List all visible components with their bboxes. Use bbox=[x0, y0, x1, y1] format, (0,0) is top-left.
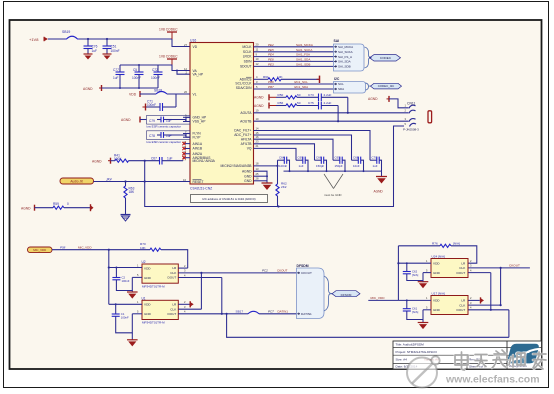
svg-text:1V8 CODEC: 1V8 CODEC bbox=[159, 55, 178, 59]
svg-text:100nF: 100nF bbox=[279, 164, 287, 168]
microphone U24 bbox=[398, 254, 500, 277]
resistor R63 bbox=[124, 182, 135, 215]
svg-text:12: 12 bbox=[184, 67, 187, 71]
svg-text:DOUT: DOUT bbox=[168, 312, 177, 316]
svg-text:Audio JK: Audio JK bbox=[70, 179, 84, 183]
svg-text:AGND: AGND bbox=[254, 96, 264, 100]
svg-text:100nF: 100nF bbox=[151, 76, 160, 80]
power flag 1V8_CODEC bbox=[159, 28, 178, 40]
wire SCLK / SAI1_SCKA bbox=[254, 48, 334, 52]
svg-text:SDA/CDIN: SDA/CDIN bbox=[236, 86, 252, 90]
note box I2C address bbox=[191, 195, 268, 203]
wire MIC_VDD bbox=[52, 245, 150, 304]
svg-text:SAI1_MCKA: SAI1_MCKA bbox=[296, 43, 313, 47]
svg-text:1uF: 1uF bbox=[299, 164, 304, 168]
svg-text:VQ: VQ bbox=[247, 147, 252, 151]
svg-text:P58: P58 bbox=[60, 245, 66, 249]
svg-text:PB6: PB6 bbox=[268, 80, 274, 84]
wire CLK vertical right mics bbox=[500, 267, 502, 306]
svg-text:C68: C68 bbox=[353, 155, 359, 159]
wire SCL / I2C1_SCL bbox=[254, 80, 334, 84]
svg-text:GND: GND bbox=[144, 276, 152, 280]
wire AOUTA to jack bbox=[254, 109, 405, 113]
svg-text:100nF: 100nF bbox=[147, 103, 156, 107]
wire DOUT to SB17 bbox=[226, 313, 509, 338]
svg-text:Size: A4: Size: A4 bbox=[396, 358, 408, 362]
capacitor C77 bbox=[113, 65, 125, 88]
svg-text:R61: R61 bbox=[263, 75, 269, 79]
watermark chinese characters bbox=[455, 350, 546, 370]
svg-text:PC2: PC2 bbox=[262, 269, 268, 273]
port AGND flag at C71 bbox=[143, 104, 146, 111]
capacitor C76 bbox=[84, 39, 98, 54]
port AGND at R56 bbox=[254, 103, 276, 109]
svg-text:CLK: CLK bbox=[170, 271, 177, 275]
svg-text:C67: C67 bbox=[151, 156, 157, 160]
capacitor C75 bbox=[308, 101, 339, 122]
capacitor C68 bbox=[352, 155, 364, 171]
microphone U2 bbox=[109, 260, 222, 288]
svg-text:Title: Audio&DFSDM: Title: Audio&DFSDM bbox=[396, 343, 425, 347]
ground at U2 bbox=[127, 291, 138, 299]
svg-text:SAI1_FSA: SAI1_FSA bbox=[296, 53, 310, 57]
sheet entry CODEC_I2C bbox=[371, 83, 402, 89]
ground at U17 bbox=[418, 320, 429, 330]
wire SDA / I2C1_SDA bbox=[254, 85, 334, 89]
microphone U17 bbox=[398, 291, 509, 314]
svg-text:1uF: 1uF bbox=[113, 76, 119, 80]
capacitor C2 bbox=[112, 268, 132, 291]
svg-text:19: 19 bbox=[256, 109, 259, 113]
svg-text:AGND: AGND bbox=[21, 207, 31, 211]
power flag 1V8_CODEC bbox=[159, 55, 178, 66]
capacitor C64 bbox=[278, 155, 290, 171]
svg-text:20: 20 bbox=[256, 43, 259, 47]
svg-text:AFILTB: AFILTB bbox=[241, 142, 253, 146]
wire LRCK / SAI1_FSA bbox=[254, 52, 334, 56]
no connect X marks bbox=[182, 142, 185, 160]
svg-text:AGND: AGND bbox=[121, 118, 131, 122]
svg-text:C76: C76 bbox=[92, 45, 98, 49]
wire ADC_FILT+ elbow bbox=[254, 131, 352, 160]
svg-text:AIN1A: AIN1A bbox=[193, 142, 203, 146]
wire CLK vertical to U1 bbox=[200, 272, 202, 309]
power flag GND at U17 LR bbox=[481, 297, 485, 303]
capacitor C67 bbox=[144, 156, 183, 164]
title block text bbox=[396, 343, 486, 369]
svg-text:VA_HP: VA_HP bbox=[193, 73, 204, 77]
svg-text:MP34DT01TR-M: MP34DT01TR-M bbox=[142, 284, 165, 288]
capacitor C65 bbox=[333, 155, 345, 171]
wire SDOUT / SAI1_SDB bbox=[254, 62, 334, 66]
capacitor C5 bbox=[132, 65, 144, 88]
svg-text:[N/A]: [N/A] bbox=[412, 310, 418, 314]
op-amp U16 codec body bbox=[190, 39, 254, 191]
svg-text:GND: GND bbox=[433, 271, 441, 275]
svg-text:SCL: SCL bbox=[338, 82, 344, 86]
svg-text:SB19: SB19 bbox=[62, 30, 70, 34]
svg-text:must be GND: must be GND bbox=[324, 193, 342, 197]
wire MICIN2 bbox=[254, 160, 279, 184]
ground at U1 bbox=[127, 333, 138, 347]
wire jack detect to JK net bbox=[145, 126, 404, 208]
U16 left pin names bbox=[193, 45, 216, 184]
svg-text:10K: 10K bbox=[140, 246, 146, 250]
svg-text:DFSDM: DFSDM bbox=[297, 264, 309, 268]
wire MCLK / SAI1_MCKA bbox=[254, 43, 334, 47]
svg-text:U17 [N/A]: U17 [N/A] bbox=[432, 291, 446, 295]
svg-text:26: 26 bbox=[184, 90, 187, 94]
port AGND at CN11 bbox=[368, 96, 404, 108]
svg-text:VD: VD bbox=[193, 45, 198, 49]
power flag VDD bbox=[129, 91, 140, 97]
connector CN11 audio jack bbox=[403, 102, 432, 132]
svg-text:2K2: 2K2 bbox=[281, 185, 287, 189]
harness DFSDM bbox=[297, 264, 332, 319]
wire SDIN / SAI1_SDA bbox=[254, 57, 334, 61]
svg-text:U16: U16 bbox=[190, 39, 196, 43]
svg-text:1uF: 1uF bbox=[166, 119, 172, 123]
harness SAI bbox=[334, 39, 372, 71]
capacitor C51 bbox=[103, 39, 120, 54]
svg-text:I2C1_SCL: I2C1_SCL bbox=[294, 80, 308, 84]
svg-text:50: 50 bbox=[297, 101, 301, 105]
svg-text:CKOUT: CKOUT bbox=[509, 264, 520, 268]
power flag GND at U1 LR bbox=[190, 301, 194, 307]
svg-text:25: 25 bbox=[256, 172, 259, 176]
svg-text:low ESR ceramic capacitor: low ESR ceramic capacitor bbox=[147, 125, 182, 129]
svg-text:SAI_SDA: SAI_SDA bbox=[338, 60, 351, 64]
resistor R61 pull-up bbox=[254, 75, 320, 81]
svg-text:VDD: VDD bbox=[433, 299, 440, 303]
svg-text:low ESR ceramic capacitor: low ESR ceramic capacitor bbox=[147, 140, 182, 144]
svg-text:DOUT: DOUT bbox=[457, 271, 466, 275]
wire AOUTB to jack bbox=[254, 117, 405, 121]
microphone U1 bbox=[109, 297, 227, 325]
svg-text:+1V8: +1V8 bbox=[29, 37, 39, 42]
wire MIC_VDD right bbox=[368, 246, 399, 301]
svg-text:PE2: PE2 bbox=[268, 43, 274, 47]
svg-text:SAI1_SCKA: SAI1_SCKA bbox=[296, 48, 312, 52]
svg-text:[N/A]: [N/A] bbox=[412, 273, 418, 277]
svg-text:SAI_MCKA: SAI_MCKA bbox=[338, 45, 353, 49]
svg-text:VDD: VDD bbox=[433, 261, 440, 265]
svg-text:150pF: 150pF bbox=[316, 164, 324, 168]
svg-text:1uF: 1uF bbox=[166, 134, 172, 138]
svg-text:SCLK: SCLK bbox=[243, 50, 252, 54]
svg-text:FLYP: FLYP bbox=[193, 135, 202, 139]
capacitor C73 bbox=[308, 93, 349, 114]
svg-text:AGND: AGND bbox=[242, 169, 252, 173]
svg-text:C5: C5 bbox=[133, 68, 137, 72]
svg-text:MCLK: MCLK bbox=[242, 45, 252, 49]
wire AGND GND pins elbow bbox=[254, 167, 269, 183]
wire CKOUT right bbox=[501, 264, 530, 268]
wire AGND rail under caps bbox=[284, 170, 382, 176]
svg-text:R50: R50 bbox=[278, 93, 284, 97]
svg-text:27: 27 bbox=[184, 43, 187, 47]
solder bridge SB18 bbox=[140, 89, 190, 95]
port AGND at R41 bbox=[92, 158, 111, 164]
svg-text:C66: C66 bbox=[316, 155, 322, 159]
svg-text:100K: 100K bbox=[114, 157, 122, 161]
svg-text:16: 16 bbox=[256, 135, 259, 139]
port AGND at C79 bbox=[121, 117, 147, 123]
sheet entry CODEC bbox=[370, 55, 401, 61]
watermark url text bbox=[445, 374, 540, 386]
svg-text:SB17: SB17 bbox=[236, 310, 244, 314]
svg-text:DATIN1: DATIN1 bbox=[278, 310, 289, 314]
svg-text:15: 15 bbox=[256, 131, 259, 135]
svg-text:SAI: SAI bbox=[334, 39, 340, 43]
svg-text:SAI1_SDA: SAI1_SDA bbox=[296, 58, 310, 62]
svg-text:C77: C77 bbox=[113, 68, 119, 72]
svg-text:SDOUT: SDOUT bbox=[240, 64, 252, 68]
svg-text:I2C1_SDA: I2C1_SDA bbox=[294, 85, 308, 89]
power flag at R61 bbox=[317, 76, 320, 83]
svg-text:VDD: VDD bbox=[129, 93, 137, 97]
svg-text:10nF: 10nF bbox=[353, 164, 360, 168]
capacitor C78 in box bbox=[147, 131, 191, 144]
svg-text:14: 14 bbox=[256, 126, 259, 130]
svg-text:C73: C73 bbox=[308, 93, 314, 97]
capacitor C79 in box bbox=[147, 116, 191, 129]
svg-text:AGND: AGND bbox=[374, 190, 384, 194]
svg-text:100nF: 100nF bbox=[132, 76, 141, 80]
svg-text:CS42L51-CNZ: CS42L51-CNZ bbox=[190, 187, 212, 191]
svg-text:100nF: 100nF bbox=[122, 279, 130, 283]
svg-text:AFILTA: AFILTA bbox=[241, 137, 252, 141]
resistor R70 bbox=[140, 242, 188, 268]
svg-text:18K: 18K bbox=[129, 190, 136, 194]
U16 left pin stubs and numbers bbox=[183, 43, 188, 182]
svg-text:R59: R59 bbox=[53, 202, 59, 206]
svg-text:PE3: PE3 bbox=[268, 63, 274, 67]
svg-text:1uF: 1uF bbox=[92, 49, 98, 53]
svg-text:1uF: 1uF bbox=[373, 164, 378, 168]
svg-text:2.2uF: 2.2uF bbox=[324, 101, 332, 105]
svg-text:50: 50 bbox=[297, 93, 301, 97]
svg-text:C78: C78 bbox=[149, 134, 155, 138]
harness I2C bbox=[334, 77, 371, 93]
watermark magnifier icon bbox=[407, 356, 440, 387]
svg-text:AGND: AGND bbox=[254, 104, 264, 108]
power flag at R59 bbox=[91, 204, 94, 211]
logo ST bbox=[508, 344, 540, 368]
port MIC_VDD bbox=[28, 247, 53, 253]
svg-text:VL: VL bbox=[193, 92, 197, 96]
svg-text:150pF: 150pF bbox=[335, 164, 343, 168]
capacitor C71 bbox=[146, 94, 176, 111]
svg-text:DFSDM: DFSDM bbox=[341, 293, 352, 297]
capacitor C70 bbox=[370, 155, 382, 171]
svg-text:R56: R56 bbox=[278, 101, 284, 105]
resistor R62 bbox=[276, 181, 287, 206]
svg-text:DAC_FILT+: DAC_FILT+ bbox=[234, 129, 251, 133]
ground bbox=[103, 54, 112, 60]
capacitor C69 bbox=[296, 155, 308, 171]
capacitor C72 bbox=[151, 65, 163, 88]
solder bridge SB19 bbox=[62, 30, 79, 39]
svg-text:MIC_VDD: MIC_VDD bbox=[371, 296, 386, 300]
capacitor C66 bbox=[315, 155, 327, 171]
svg-text:PE4: PE4 bbox=[268, 53, 274, 57]
resistor R76 bbox=[398, 241, 476, 263]
svg-text:100nF: 100nF bbox=[121, 316, 129, 320]
svg-text:VSS_HP: VSS_HP bbox=[193, 120, 207, 124]
wire AGND rail bbox=[102, 87, 159, 89]
svg-text:CLK: CLK bbox=[459, 266, 466, 270]
svg-text:MICIN1/ AIN3A: MICIN1/ AIN3A bbox=[193, 159, 216, 163]
svg-text:PB7: PB7 bbox=[268, 85, 274, 89]
capacitor C1 bbox=[112, 304, 133, 333]
svg-text:MIC_VDD: MIC_VDD bbox=[33, 248, 46, 252]
svg-text:JK4: JK4 bbox=[106, 177, 112, 181]
svg-text:GND: GND bbox=[144, 312, 152, 316]
title block frame bbox=[393, 341, 542, 369]
wire +1V8 rail bbox=[48, 38, 190, 47]
svg-text:I2C address of CS42L51 is 0x94: I2C address of CS42L51 is 0x94 (AD0=0) bbox=[202, 197, 255, 201]
svg-text:SAI_SCKA: SAI_SCKA bbox=[338, 50, 353, 54]
wire VQ elbow bbox=[254, 144, 297, 160]
U16 right pin names bbox=[221, 45, 253, 183]
capacitor C61 bbox=[403, 300, 423, 319]
svg-text:SAI_SDB: SAI_SDB bbox=[338, 65, 351, 69]
resistor R41 bbox=[111, 153, 160, 162]
svg-text:C72: C72 bbox=[152, 68, 158, 72]
svg-text:1uF: 1uF bbox=[167, 156, 173, 160]
svg-text:Project: STM32L476G-DISCO: Project: STM32L476G-DISCO bbox=[396, 350, 438, 354]
svg-text:21: 21 bbox=[256, 144, 259, 148]
svg-text:13: 13 bbox=[256, 167, 259, 171]
svg-text:AGND: AGND bbox=[92, 159, 102, 163]
svg-text:[N/A]: [N/A] bbox=[453, 241, 460, 245]
svg-text:MICIN2/ BIAS/AIN3B: MICIN2/ BIAS/AIN3B bbox=[221, 164, 253, 168]
svg-text:SAI1_SDB: SAI1_SDB bbox=[296, 63, 310, 67]
wire Audio JK net bbox=[94, 177, 191, 182]
svg-text:CKOUT: CKOUT bbox=[301, 271, 312, 275]
svg-text:SAI_FS_A: SAI_FS_A bbox=[338, 55, 352, 59]
ground at U24 bbox=[418, 281, 429, 289]
svg-text:2.2uF: 2.2uF bbox=[324, 93, 332, 97]
wire AFILTB elbow bbox=[254, 140, 315, 161]
ground at R63 bbox=[121, 215, 131, 222]
solder bridge SB17 bbox=[235, 310, 297, 314]
svg-text:C51: C51 bbox=[111, 45, 117, 49]
svg-text:CODEC: CODEC bbox=[380, 56, 392, 60]
wire DOUT right mics bbox=[490, 273, 509, 338]
wire DOUT vertical U2 to U1 bbox=[221, 278, 223, 315]
svg-text:P-JK0508-3: P-JK0508-3 bbox=[403, 128, 419, 132]
svg-text:VDD: VDD bbox=[144, 303, 151, 307]
svg-text:10K: 10K bbox=[277, 75, 283, 79]
svg-text:AIN1B: AIN1B bbox=[193, 147, 203, 151]
svg-text:C64: C64 bbox=[279, 155, 285, 159]
svg-text:GND: GND bbox=[433, 308, 441, 312]
svg-text:U24 [N/A]: U24 [N/A] bbox=[432, 254, 446, 258]
svg-text:DATIN1: DATIN1 bbox=[301, 312, 312, 316]
ground bbox=[84, 54, 93, 60]
capacitor C62 bbox=[403, 263, 423, 280]
port AGND at R50 bbox=[254, 94, 276, 100]
svg-text:C70: C70 bbox=[372, 155, 378, 159]
svg-text:12: 12 bbox=[256, 62, 259, 66]
svg-text:C79: C79 bbox=[149, 119, 155, 123]
svg-text:C65: C65 bbox=[335, 155, 341, 159]
svg-text:RESET: RESET bbox=[193, 180, 204, 184]
svg-text:PE6: PE6 bbox=[268, 58, 274, 62]
svg-text:www.elecfans.com: www.elecfans.com bbox=[445, 374, 540, 386]
svg-text:100nF: 100nF bbox=[111, 49, 120, 53]
svg-text:I2C: I2C bbox=[334, 77, 340, 81]
wire AFILTA elbow bbox=[254, 135, 334, 160]
resistor R56 bbox=[276, 101, 319, 107]
ground at GND pins bbox=[262, 183, 273, 190]
svg-text:CLK: CLK bbox=[170, 307, 177, 311]
port +1V8 bbox=[29, 37, 48, 42]
port AGND bbox=[83, 85, 102, 91]
svg-text:C75: C75 bbox=[308, 101, 314, 105]
svg-text:PE5: PE5 bbox=[268, 48, 274, 52]
svg-text:0: 0 bbox=[67, 202, 69, 206]
svg-text:GND: GND bbox=[244, 174, 252, 178]
svg-text:AOUTA: AOUTA bbox=[240, 111, 252, 115]
svg-text:18: 18 bbox=[256, 162, 259, 166]
svg-text:10: 10 bbox=[256, 117, 259, 121]
sheet entry DFSDM bbox=[332, 291, 361, 297]
svg-text:1V8 CODEC: 1V8 CODEC bbox=[159, 28, 178, 32]
svg-text:10: 10 bbox=[256, 57, 259, 61]
svg-text:SDIN: SDIN bbox=[244, 59, 252, 63]
svg-text:AOUTB: AOUTB bbox=[240, 119, 252, 123]
svg-text:GND: GND bbox=[244, 179, 252, 183]
svg-text:23: 23 bbox=[256, 140, 259, 144]
svg-text:MP34DT01TR-M: MP34DT01TR-M bbox=[142, 321, 165, 325]
svg-text:MIC_VDD: MIC_VDD bbox=[78, 245, 92, 249]
port Audio JK bbox=[60, 178, 94, 184]
svg-text:SDA: SDA bbox=[338, 87, 344, 91]
svg-text:CLK: CLK bbox=[459, 303, 466, 307]
svg-text:CKOUT: CKOUT bbox=[277, 269, 288, 273]
svg-text:AGND: AGND bbox=[83, 87, 93, 91]
svg-text:C69: C69 bbox=[298, 155, 304, 159]
svg-text:DOUT: DOUT bbox=[168, 276, 177, 280]
wire DAC_FILT+ elbow bbox=[254, 126, 371, 160]
resistor R50 bbox=[276, 93, 319, 99]
ground AGND at cap rail bbox=[374, 177, 388, 194]
svg-text:DOUT: DOUT bbox=[457, 308, 466, 312]
wire VA rail bbox=[120, 64, 190, 74]
resistor R59 0 bbox=[53, 202, 90, 209]
port AGND with R59 bbox=[21, 205, 53, 211]
svg-text:R76: R76 bbox=[432, 241, 438, 245]
svg-text:LRCK: LRCK bbox=[243, 55, 253, 59]
svg-text:28: 28 bbox=[256, 177, 259, 181]
wire CKOUT net bbox=[201, 269, 296, 273]
svg-text:CODEC_I2C: CODEC_I2C bbox=[378, 84, 395, 88]
note must be GND bbox=[324, 174, 343, 197]
svg-text:AGND: AGND bbox=[368, 97, 378, 101]
svg-text:VDD: VDD bbox=[144, 266, 151, 270]
svg-text:PC7: PC7 bbox=[268, 310, 274, 314]
wire mic junction vertical bbox=[144, 161, 146, 182]
